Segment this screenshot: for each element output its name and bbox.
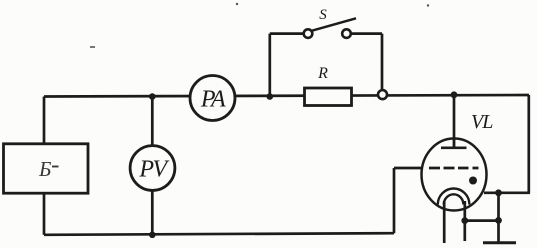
wire switch branch left vertical bbox=[268, 34, 271, 97]
svg-text:VL: VL bbox=[471, 111, 493, 133]
battery plate bbox=[483, 241, 516, 244]
svg-text:PV: PV bbox=[138, 157, 169, 183]
junction dot PV tap on top wire bbox=[149, 93, 156, 100]
wire filament right leg bbox=[463, 201, 466, 241]
wire vertical between cathode node and filament tap bbox=[497, 193, 500, 221]
switch S right contact bbox=[342, 29, 351, 38]
wire grid return vertical bbox=[393, 168, 396, 233]
wire cathode-side horizontal bbox=[484, 191, 530, 194]
svg-text:Б: Б bbox=[38, 157, 51, 181]
tube VL cathode outer arc bbox=[438, 188, 470, 204]
svg-text:PA: PA bbox=[200, 87, 226, 113]
switch S left contact bbox=[304, 29, 313, 38]
wire G bottom lead bbox=[43, 193, 46, 235]
junction dot cathode node bbox=[495, 189, 502, 196]
tube VL anode lead inside bbox=[453, 138, 455, 148]
wire switch branch right vertical bbox=[381, 34, 384, 91]
tube VL envelope bbox=[422, 139, 487, 211]
ammeter PA bbox=[190, 76, 235, 121]
tube VL cathode inner arc bbox=[444, 194, 464, 204]
resistor R bbox=[305, 88, 352, 106]
junction dot filament tap left bbox=[461, 217, 468, 224]
wire filament tap horizontal bbox=[465, 219, 499, 222]
junction dot switch branch tap bbox=[267, 93, 274, 100]
tube VL anode plate bbox=[441, 147, 467, 150]
wire PV top lead bbox=[151, 97, 154, 147]
wire anode lead bbox=[453, 95, 456, 148]
wire right edge vertical bbox=[527, 95, 530, 193]
wire grid lead horizontal bbox=[394, 167, 423, 170]
wire bottom return horizontal bbox=[44, 233, 394, 235]
wire PV bottom lead bbox=[151, 190, 154, 235]
wire top main horizontal bbox=[44, 95, 529, 97]
tube VL grid (dashed) bbox=[429, 167, 479, 170]
tube VL gas-filled indicator dot bbox=[469, 177, 477, 185]
node open-circle terminal at resistor output bbox=[378, 90, 387, 99]
junction dot filament tap right bbox=[495, 217, 502, 224]
label G bbox=[38, 157, 59, 181]
switch S lever bbox=[312, 18, 357, 31]
svg-text:S: S bbox=[319, 7, 327, 23]
source G box bbox=[4, 144, 89, 193]
junction dot PV bottom tap bbox=[149, 232, 156, 239]
voltmeter PV bbox=[130, 146, 175, 191]
junction dot anode tap bbox=[451, 91, 458, 98]
wire G top lead bbox=[43, 97, 46, 144]
svg-text:R: R bbox=[317, 65, 328, 82]
wire filament left leg bbox=[443, 201, 446, 243]
wire switch branch top-left horizontal bbox=[270, 32, 303, 35]
wire battery lead vertical bbox=[497, 220, 500, 242]
wire switch branch top-right horizontal bbox=[352, 32, 383, 35]
